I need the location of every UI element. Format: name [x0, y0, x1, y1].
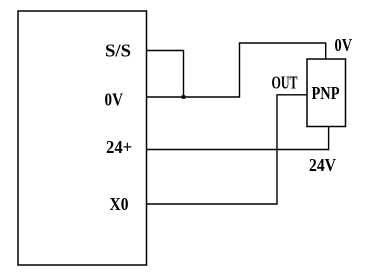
svg-text:S/S: S/S — [105, 41, 131, 61]
svg-text:24V: 24V — [309, 155, 336, 175]
svg-text:X0: X0 — [110, 194, 129, 214]
svg-text:0V: 0V — [105, 90, 124, 110]
svg-text:PNP: PNP — [312, 83, 340, 103]
svg-text:24+: 24+ — [106, 137, 132, 157]
svg-text:OUT: OUT — [272, 73, 298, 93]
svg-text:0V: 0V — [335, 35, 353, 55]
